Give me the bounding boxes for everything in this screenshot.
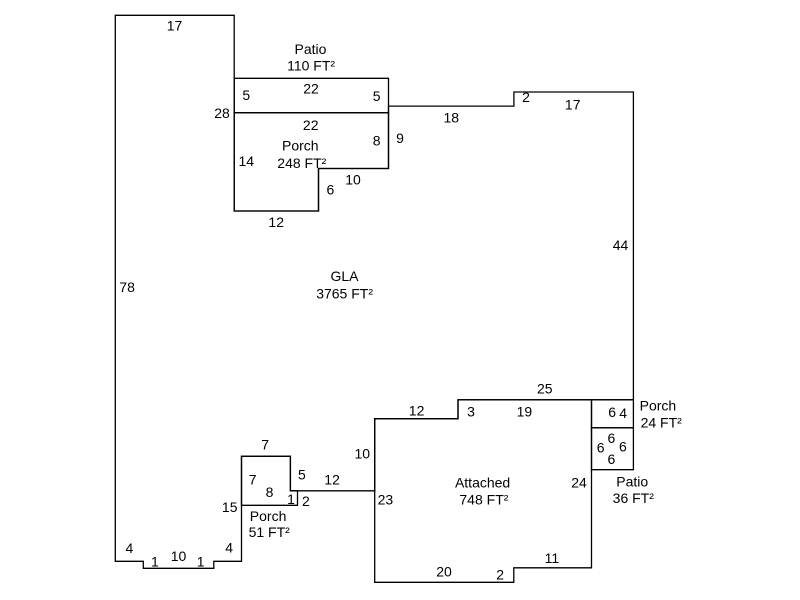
svg-text:6: 6 <box>608 404 616 420</box>
svg-text:Porch: Porch <box>640 397 677 413</box>
svg-text:12: 12 <box>268 214 284 230</box>
svg-text:6: 6 <box>608 430 616 446</box>
svg-text:4: 4 <box>619 405 627 421</box>
svg-text:5: 5 <box>373 88 381 104</box>
svg-text:22: 22 <box>303 81 319 97</box>
svg-text:6: 6 <box>619 439 627 455</box>
svg-text:78: 78 <box>119 279 135 295</box>
svg-text:10: 10 <box>345 171 361 187</box>
svg-text:20: 20 <box>436 564 452 580</box>
svg-text:2: 2 <box>522 89 530 105</box>
svg-text:6: 6 <box>608 451 616 467</box>
svg-text:3765 FT²: 3765 FT² <box>316 286 373 302</box>
svg-text:9: 9 <box>396 130 404 146</box>
svg-text:7: 7 <box>261 436 269 452</box>
svg-text:3: 3 <box>467 404 475 420</box>
svg-text:Patio: Patio <box>616 474 648 490</box>
svg-text:GLA: GLA <box>330 268 359 284</box>
svg-text:15: 15 <box>222 499 238 515</box>
svg-text:1: 1 <box>197 553 205 569</box>
svg-text:Attached: Attached <box>455 475 510 491</box>
svg-text:110 FT²: 110 FT² <box>287 57 335 73</box>
svg-text:25: 25 <box>537 380 553 396</box>
svg-text:4: 4 <box>126 540 134 556</box>
svg-text:22: 22 <box>303 117 319 133</box>
svg-text:12: 12 <box>324 472 340 488</box>
svg-text:24: 24 <box>571 475 587 491</box>
svg-text:10: 10 <box>171 548 187 564</box>
svg-text:2: 2 <box>496 566 504 582</box>
svg-text:51 FT²: 51 FT² <box>249 524 291 540</box>
svg-text:1: 1 <box>287 491 295 507</box>
svg-text:24 FT²: 24 FT² <box>641 415 683 431</box>
svg-text:17: 17 <box>167 18 183 34</box>
svg-text:Porch: Porch <box>282 138 319 154</box>
svg-text:7: 7 <box>249 472 257 488</box>
svg-text:10: 10 <box>355 446 371 462</box>
svg-text:Porch: Porch <box>250 508 287 524</box>
svg-text:23: 23 <box>378 492 394 508</box>
svg-text:17: 17 <box>565 97 581 113</box>
svg-text:14: 14 <box>239 153 255 169</box>
svg-text:748 FT²: 748 FT² <box>459 492 508 508</box>
svg-text:11: 11 <box>545 550 560 566</box>
svg-text:44: 44 <box>613 237 629 253</box>
svg-text:6: 6 <box>327 182 335 198</box>
svg-text:5: 5 <box>298 467 306 483</box>
svg-text:18: 18 <box>444 109 460 125</box>
svg-text:8: 8 <box>373 132 381 148</box>
svg-text:2: 2 <box>302 493 310 509</box>
svg-text:4: 4 <box>225 539 233 555</box>
svg-text:12: 12 <box>409 403 425 419</box>
svg-text:8: 8 <box>266 484 274 500</box>
svg-text:28: 28 <box>214 105 230 121</box>
svg-text:1: 1 <box>151 553 159 569</box>
svg-text:6: 6 <box>597 439 605 455</box>
svg-text:248 FT²: 248 FT² <box>277 155 326 171</box>
svg-text:19: 19 <box>517 404 533 420</box>
svg-text:5: 5 <box>242 87 250 103</box>
svg-text:36 FT²: 36 FT² <box>613 490 655 506</box>
svg-text:Patio: Patio <box>295 41 327 57</box>
